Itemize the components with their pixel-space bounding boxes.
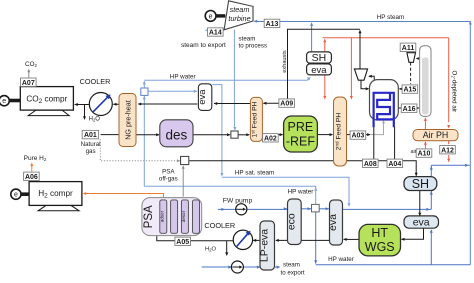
arrow down into mixer node square2 — [233, 127, 236, 131]
H2 compressor motor shaft — [20, 192, 30, 196]
HT WGS box — [359, 224, 401, 256]
H2 compressor stand — [38, 205, 79, 210]
eco box — [288, 199, 302, 245]
arrow left into LP-eva right — [275, 239, 279, 242]
svg-text:steam: steam — [283, 262, 300, 269]
wire FW pump line — [218, 208, 287, 210]
svg-text:A02: A02 — [264, 135, 277, 142]
arrow down red onto 2nd Feed PH left — [323, 96, 326, 100]
SH bottom-right box — [404, 177, 437, 191]
arrow up into PSA bottom — [155, 232, 158, 236]
svg-text:eco: eco — [286, 213, 298, 230]
arrow up at eco-square riser top — [314, 187, 317, 191]
arrow orange into H2 compressor — [83, 192, 87, 195]
svg-text:A06: A06 — [25, 174, 38, 181]
Air PH box — [413, 130, 458, 141]
svg-text:PSA: PSA — [162, 168, 175, 175]
arrow on FW pump line start — [221, 208, 225, 211]
svg-text:A08: A08 — [364, 161, 377, 168]
PSA adsorber column 4 — [193, 200, 200, 233]
arrow up into square1 bottom — [143, 96, 146, 100]
svg-text:HT: HT — [371, 226, 388, 240]
CO2 compressor motor shaft — [8, 99, 20, 103]
wire steam to process (turbine to mixer node) — [233, 30, 235, 129]
wire exhaust eva small to NG pre-heat — [138, 103, 197, 105]
arrow up above SH top — [430, 166, 433, 170]
svg-text:e: e — [209, 14, 213, 21]
arrow LP steam to export end — [277, 266, 281, 269]
wire reformer left leg down to A08 — [373, 127, 375, 160]
FW pump circle — [236, 204, 247, 215]
cooler1 circle — [89, 93, 112, 116]
arrow left into reformer right side — [399, 87, 403, 90]
wire exhaust NG pre-heat to cooler1 — [113, 103, 118, 105]
wire eco outlet to eco-square — [301, 208, 311, 210]
wire SH to eva right — [419, 190, 421, 216]
PSA adsorber column 3 — [181, 200, 188, 233]
svg-text:Natural: Natural — [81, 141, 101, 148]
wire dashed funnel2 to A15 — [410, 63, 412, 85]
label A06 — [24, 172, 40, 181]
air column — [420, 46, 431, 117]
arrow right into column left side — [416, 107, 420, 110]
NG pre-heat box — [119, 94, 136, 147]
wire gray feed riser into reformer bottom — [371, 122, 384, 135]
eva right box — [404, 216, 439, 228]
svg-text:steam to export: steam to export — [181, 42, 226, 49]
arrow down H2O at cooler2 — [225, 252, 228, 256]
arrow up into HP water header above square1 — [143, 81, 146, 85]
wire dotted CO2 vent from A01 to offgas square — [100, 139, 179, 161]
wire riser through SH (bottom right) — [430, 165, 432, 209]
wire black exhaust duct from burner funnel to A09 — [288, 29, 361, 99]
eva white box — [307, 64, 332, 75]
arrow down into SH bottom-right top — [415, 173, 418, 177]
reformer coil — [374, 93, 394, 127]
svg-text:PSA: PSA — [143, 205, 155, 228]
wire 1st Feed PH through A02 to PRE-REF — [262, 134, 282, 136]
wire SH white riser to HP steam header — [311, 24, 313, 52]
PSA outer box — [142, 198, 202, 236]
svg-text:H2O: H2O — [89, 117, 101, 123]
svg-text:e: e — [14, 192, 18, 199]
svg-text:NG pre-heat: NG pre-heat — [124, 100, 133, 140]
arrow into eva (white) bottom-left — [307, 77, 311, 81]
LP pump circle — [231, 261, 243, 273]
arrow right into reformer left side — [366, 87, 370, 90]
svg-text:adsor: adsor — [159, 210, 164, 222]
wire eva small outlet down to HP sat steam header — [212, 85, 222, 175]
arrow left into funnel2 — [416, 57, 420, 60]
svg-text:Air PH: Air PH — [423, 130, 448, 140]
reformer vessel — [370, 80, 399, 120]
wire HP steam collect line to right edge — [431, 164, 470, 166]
steam turbine body — [224, 1, 253, 30]
arrow left into cooler2 right — [253, 239, 257, 242]
wire HP water top header — [144, 80, 307, 87]
svg-text:-REF: -REF — [286, 134, 316, 148]
wire orange H2 product PSA to H2 compressor — [84, 194, 164, 198]
arrow up into SH bottom — [430, 191, 433, 195]
svg-text:to export: to export — [281, 270, 305, 277]
eva small box — [198, 84, 211, 111]
wire H2O drop at cooler2 — [226, 241, 228, 254]
arrow up into offgas square bottom — [182, 165, 185, 169]
PRE-REF box — [284, 116, 318, 152]
PSA adsorber column 1 — [160, 200, 167, 233]
arrow up red into column bottom — [424, 117, 427, 121]
PSA adsorber column 2 — [171, 200, 178, 233]
wire PSA riser to offgas square — [182, 166, 184, 196]
svg-text:A09: A09 — [280, 101, 293, 108]
H2 compressor box — [29, 182, 82, 206]
arrow into square2 left — [227, 133, 231, 136]
wire exhaust cooler1 to CO2 compressor + H2O drop — [75, 105, 89, 119]
CO2 compressor stand — [28, 110, 69, 116]
mixer square1 — [141, 88, 148, 95]
svg-text:turbine: turbine — [228, 14, 250, 23]
svg-text:A10: A10 — [418, 151, 431, 158]
svg-text:A01: A01 — [84, 132, 97, 139]
svg-text:A13: A13 — [266, 21, 279, 28]
wire reformer top to burner funnel — [369, 76, 374, 80]
arrow into eco-square — [308, 207, 312, 210]
wire gray CO2 arrow above A07 — [28, 70, 30, 77]
svg-text:H2O: H2O — [205, 247, 216, 253]
arrow on LP line after pump — [257, 266, 261, 269]
label A03 — [350, 131, 366, 140]
arrow up into reformer bottom — [382, 120, 385, 124]
arrow steam to export (left of A14) — [205, 29, 209, 32]
arrow into 2nd Feed PH left — [330, 133, 334, 136]
arrow into turbine (HP steam) — [254, 20, 258, 23]
arrow into eva small — [194, 90, 198, 93]
label A07 — [21, 78, 37, 87]
eco-square mixer — [312, 204, 320, 212]
arrow on A03 line — [367, 133, 371, 136]
svg-text:A16: A16 — [403, 106, 416, 113]
wire LP steam export line — [202, 266, 280, 268]
svg-text:eva: eva — [413, 216, 430, 228]
svg-text:SH: SH — [312, 52, 327, 64]
svg-text:H2 compr: H2 compr — [38, 189, 73, 200]
arrow into 1st Feed PH right — [263, 102, 267, 105]
svg-text:desor: desor — [181, 210, 186, 222]
svg-text:steam: steam — [239, 35, 256, 42]
arrow up red into Air PH bottom — [424, 141, 427, 145]
arrow into eva-bc left — [326, 207, 330, 210]
eva-bc box — [330, 200, 343, 245]
wire riser square1 down to HP water mid header — [143, 96, 145, 187]
H2 compressor motor e — [11, 189, 21, 199]
wire reformer right leg down to A04 — [394, 127, 396, 160]
arrow left into funnel right side — [368, 75, 372, 78]
wire PRE-REF to 2nd Feed PH — [318, 134, 333, 136]
svg-text:HP water: HP water — [328, 256, 354, 263]
mixer square2 — [231, 131, 238, 138]
arrow into eva small right — [214, 102, 218, 105]
wire HP water mid header — [144, 186, 315, 204]
wire column to flue funnel2 — [417, 58, 420, 60]
svg-text:A11: A11 — [402, 45, 415, 52]
svg-text:COOLER: COOLER — [80, 77, 111, 86]
label A02 — [263, 134, 279, 143]
label A13 — [264, 19, 280, 28]
arrow on LP line before pump — [228, 266, 232, 269]
1st Feed PH box — [250, 97, 262, 141]
flue funnel2 — [407, 53, 416, 63]
wire HP sat steam header — [222, 177, 349, 205]
wire eva-bc to LP-eva to cooler2 to PSA — [157, 235, 329, 241]
label A14 — [208, 28, 224, 37]
arrow down red below A12 — [447, 159, 450, 163]
label A10 — [416, 149, 432, 158]
wire A15 to reformer — [400, 88, 403, 90]
arrow left into HT WGS right — [401, 238, 405, 241]
svg-text:des: des — [166, 128, 188, 143]
arrow up at top right corner — [469, 21, 472, 25]
svg-text:LP-eva: LP-eva — [258, 229, 270, 262]
svg-text:HP steam: HP steam — [377, 14, 405, 21]
svg-text:off-gas: off-gas — [159, 176, 178, 183]
svg-text:A05: A05 — [176, 239, 189, 246]
arrow right before SH riser — [426, 208, 430, 211]
svg-text:HP sat. steam: HP sat. steam — [235, 170, 274, 177]
arrow down into eva right top — [418, 213, 421, 217]
wire HP water bottom return — [316, 212, 471, 265]
CO2 compressor box — [20, 87, 73, 111]
svg-text:e: e — [2, 98, 6, 105]
wire riser into eva right bottom — [430, 230, 432, 265]
cooler2 circle — [233, 230, 252, 249]
arrow up red into header from SH white — [323, 39, 326, 43]
offgas mixer square — [181, 156, 189, 164]
wire NG pre-heat to des — [136, 134, 158, 136]
arrow up black at funnel riser top — [359, 30, 362, 34]
wire exhaust 1st Feed PH to eva small — [214, 103, 250, 105]
arrow into eco left — [284, 207, 288, 210]
arrow down red onto 2nd Feed PH right — [350, 96, 353, 100]
svg-text:A04: A04 — [388, 161, 401, 168]
svg-text:FW pump: FW pump — [223, 197, 253, 204]
des box — [160, 120, 193, 147]
arrow up into HP steam header from SH white — [310, 22, 313, 26]
svg-text:PRE: PRE — [288, 120, 314, 134]
label A04 — [387, 159, 403, 168]
svg-text:eva: eva — [311, 65, 327, 76]
arrow right into offgas square left — [177, 159, 181, 162]
wire burner funnel bottom into reformer left — [361, 80, 368, 89]
svg-text:COOLER: COOLER — [204, 221, 235, 230]
arrow down joining eva steam line — [348, 203, 351, 207]
burner funnel — [354, 69, 367, 80]
wire square2 to 1st Feed PH — [238, 134, 249, 136]
air column inner — [422, 58, 429, 115]
svg-text:gas: gas — [86, 148, 96, 155]
wire syngas offgas line square to SH bottom right — [189, 161, 416, 176]
svg-text:Pure H2: Pure H2 — [24, 155, 47, 162]
wire HT WGS to eva-bc — [344, 238, 359, 240]
svg-text:SH: SH — [412, 177, 429, 191]
svg-text:HP water: HP water — [170, 74, 196, 81]
arrow down red into Air PH top — [447, 125, 450, 129]
svg-text:A03: A03 — [351, 133, 364, 140]
arrow into PRE-REF left — [280, 133, 284, 136]
svg-text:HP water: HP water — [288, 189, 314, 196]
svg-text:exhausts: exhausts — [282, 50, 288, 73]
wire red O2-depleted air to A12 — [448, 141, 450, 161]
LP-eva box — [260, 221, 275, 270]
arrow right at collect line end — [465, 164, 469, 167]
arrow left into eva-bc right — [343, 238, 347, 241]
arrow into CO2 compressor right — [74, 103, 78, 106]
wire HP steam header to turbine — [254, 22, 470, 265]
svg-text:to process: to process — [239, 43, 268, 50]
cooler2 blue arrow — [236, 233, 248, 247]
wire eva-bc steam to SH riser — [343, 208, 432, 210]
label A15 — [402, 85, 418, 94]
wire flue gas red header — [323, 38, 449, 122]
wire 2nd Feed PH through A03 to reformer riser — [347, 134, 370, 136]
label A01 — [82, 130, 98, 139]
SH white box — [307, 52, 332, 63]
svg-text:WGS: WGS — [365, 240, 395, 254]
svg-text:steam: steam — [230, 5, 250, 14]
wire A09 to 1st Feed PH — [263, 102, 279, 104]
wire red air from Air PH up into column — [424, 119, 426, 129]
arrow into 1st Feed PH left — [246, 133, 250, 136]
arrow down H2O knockout at cooler1 — [83, 116, 86, 120]
svg-text:air: air — [411, 149, 417, 155]
svg-text:A15: A15 — [403, 87, 416, 94]
arrow down at HP sat steam start — [220, 173, 223, 177]
arrow into des left — [156, 133, 160, 136]
turbine generator shaft — [216, 14, 226, 17]
turbine generator e — [205, 11, 216, 22]
svg-text:A12: A12 — [441, 147, 454, 154]
svg-text:eva: eva — [197, 89, 208, 105]
label A05 — [175, 237, 191, 246]
label A11 — [400, 43, 416, 52]
label A08 — [363, 159, 379, 168]
svg-text:A14: A14 — [209, 30, 222, 37]
wire square1 to eva (small) — [148, 90, 197, 92]
label A16 — [401, 104, 417, 113]
wire reformer to A16 to column — [398, 107, 418, 109]
arrow into NG pre-heat right — [138, 103, 142, 106]
wire des to mixer square2 — [193, 134, 230, 136]
cooler1 blue arrow — [93, 97, 108, 113]
wire red air A10 to Air PH — [424, 143, 426, 149]
wire orange arrow Pure H2 above A06 — [31, 164, 33, 171]
arrow down at HP water bottom corner — [314, 260, 317, 264]
2nd Feed PH box — [334, 97, 347, 166]
label A09 — [279, 99, 295, 108]
svg-text:eva: eva — [327, 214, 339, 231]
CO2 compressor motor e — [0, 96, 9, 106]
label A12 — [440, 146, 456, 155]
svg-text:A07: A07 — [22, 80, 35, 87]
arrow into cooler1 right — [113, 103, 117, 106]
wire eco-square to eva-bc — [319, 208, 329, 210]
arrow up into eva right bottom — [430, 229, 433, 233]
wire eva right down to HT WGS — [402, 228, 424, 239]
svg-text:CO2 compr: CO2 compr — [26, 94, 67, 105]
wire natural gas A01 to NG pre-heat — [101, 134, 119, 136]
